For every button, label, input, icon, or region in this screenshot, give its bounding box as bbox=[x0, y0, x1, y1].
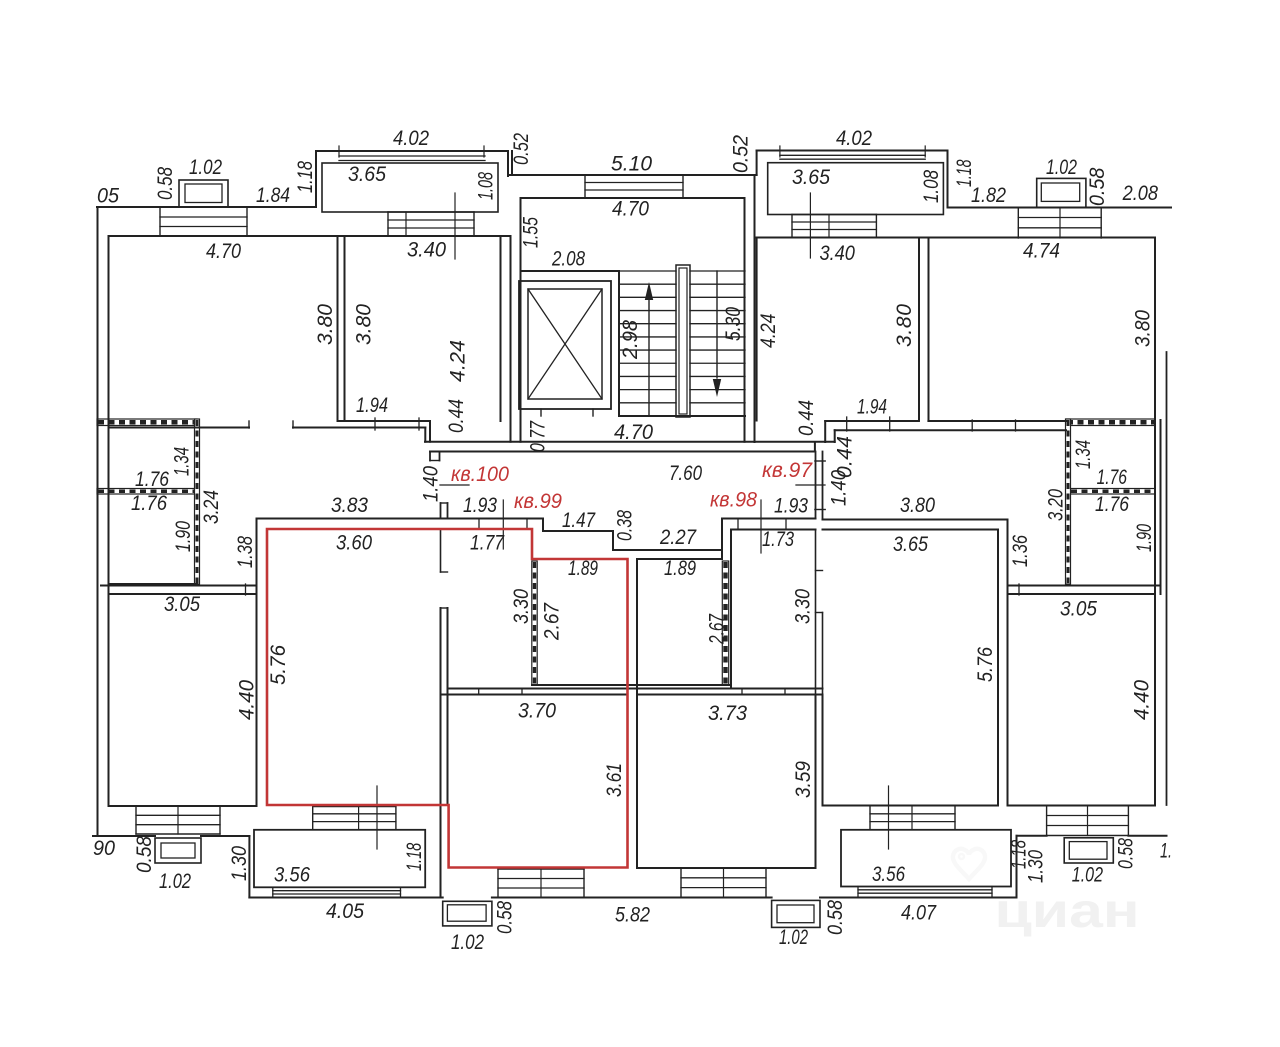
svg-text:1.02: 1.02 bbox=[1046, 156, 1077, 179]
svg-text:1.02: 1.02 bbox=[779, 926, 808, 949]
svg-text:0.38: 0.38 bbox=[614, 510, 637, 541]
svg-text:3.83: 3.83 bbox=[331, 494, 368, 517]
svg-text:0.58: 0.58 bbox=[1086, 167, 1109, 206]
svg-text:1.34: 1.34 bbox=[1072, 440, 1095, 469]
svg-text:1.55: 1.55 bbox=[520, 217, 543, 248]
svg-text:1.76: 1.76 bbox=[1097, 466, 1128, 489]
svg-text:1.76: 1.76 bbox=[131, 492, 167, 515]
svg-text:4.70: 4.70 bbox=[614, 421, 653, 444]
svg-text:3.73: 3.73 bbox=[708, 702, 747, 725]
svg-text:1.94: 1.94 bbox=[857, 396, 887, 419]
svg-text:1.77: 1.77 bbox=[470, 532, 505, 555]
svg-text:5.76: 5.76 bbox=[267, 645, 290, 685]
svg-text:4.70: 4.70 bbox=[206, 240, 241, 263]
svg-text:3.65: 3.65 bbox=[792, 166, 830, 189]
svg-text:1.18: 1.18 bbox=[294, 161, 317, 193]
svg-text:3.61: 3.61 bbox=[603, 763, 626, 797]
svg-text:4.40: 4.40 bbox=[1131, 680, 1154, 720]
svg-text:7.60: 7.60 bbox=[669, 462, 702, 485]
svg-text:0.58: 0.58 bbox=[824, 900, 847, 935]
svg-text:1.40: 1.40 bbox=[828, 470, 851, 506]
svg-text:4.02: 4.02 bbox=[836, 127, 872, 150]
svg-text:0.58: 0.58 bbox=[154, 167, 177, 200]
svg-text:3.65: 3.65 bbox=[893, 533, 928, 556]
svg-text:1.38: 1.38 bbox=[234, 536, 257, 568]
svg-text:4.74: 4.74 bbox=[1023, 240, 1060, 263]
svg-text:1.84: 1.84 bbox=[256, 184, 290, 207]
svg-text:0.77: 0.77 bbox=[527, 420, 550, 452]
svg-text:3.30: 3.30 bbox=[510, 589, 533, 624]
svg-text:0.44: 0.44 bbox=[795, 400, 818, 436]
svg-text:4.07: 4.07 bbox=[901, 902, 937, 925]
svg-text:5.10: 5.10 bbox=[611, 153, 652, 176]
svg-text:1.02: 1.02 bbox=[189, 156, 222, 179]
svg-text:3.70: 3.70 bbox=[518, 700, 556, 723]
svg-text:1.30: 1.30 bbox=[228, 846, 251, 881]
svg-text:5.82: 5.82 bbox=[615, 903, 650, 926]
svg-text:4.24: 4.24 bbox=[757, 314, 780, 348]
svg-text:1.90: 1.90 bbox=[1133, 524, 1156, 552]
svg-text:1.: 1. bbox=[1160, 840, 1172, 863]
svg-text:кв.99: кв.99 bbox=[514, 490, 562, 513]
svg-text:1.40: 1.40 bbox=[420, 466, 443, 502]
svg-text:2.67: 2.67 bbox=[541, 602, 564, 641]
svg-text:0.52: 0.52 bbox=[730, 135, 753, 173]
svg-text:4.24: 4.24 bbox=[447, 340, 470, 382]
svg-text:1.02: 1.02 bbox=[1072, 864, 1103, 887]
svg-text:1.36: 1.36 bbox=[1009, 535, 1032, 567]
svg-text:1.93: 1.93 bbox=[463, 494, 497, 517]
svg-text:2.67: 2.67 bbox=[706, 613, 729, 645]
svg-text:1.18: 1.18 bbox=[403, 843, 426, 872]
svg-text:0.44: 0.44 bbox=[445, 399, 468, 433]
svg-text:3.05: 3.05 bbox=[1060, 597, 1097, 620]
svg-text:3.60: 3.60 bbox=[336, 532, 372, 555]
svg-text:1.90: 1.90 bbox=[172, 521, 195, 552]
svg-text:кв.100: кв.100 bbox=[451, 463, 509, 486]
svg-text:3.20: 3.20 bbox=[1045, 489, 1068, 521]
svg-text:2.08: 2.08 bbox=[551, 248, 585, 271]
svg-text:3.80: 3.80 bbox=[353, 304, 376, 345]
svg-text:3.30: 3.30 bbox=[792, 589, 815, 624]
svg-text:1.34: 1.34 bbox=[171, 447, 194, 476]
svg-text:3.24: 3.24 bbox=[200, 490, 223, 524]
svg-text:кв.97: кв.97 bbox=[762, 459, 813, 482]
svg-text:4.70: 4.70 bbox=[612, 198, 649, 221]
svg-text:4.40: 4.40 bbox=[236, 680, 259, 720]
svg-text:2.08: 2.08 bbox=[1122, 182, 1158, 205]
svg-text:1.08: 1.08 bbox=[920, 170, 943, 203]
svg-text:3.80: 3.80 bbox=[314, 304, 337, 345]
svg-text:4.02: 4.02 bbox=[393, 127, 429, 150]
svg-text:1.02: 1.02 bbox=[159, 870, 191, 893]
svg-text:0.52: 0.52 bbox=[510, 133, 533, 165]
svg-text:05: 05 bbox=[97, 185, 119, 208]
svg-text:1.76: 1.76 bbox=[135, 468, 169, 491]
svg-text:4.05: 4.05 bbox=[326, 900, 364, 923]
svg-text:3.59: 3.59 bbox=[792, 761, 815, 798]
svg-text:3.80: 3.80 bbox=[893, 304, 916, 347]
svg-text:3.56: 3.56 bbox=[872, 863, 905, 886]
svg-text:кв.98: кв.98 bbox=[710, 489, 757, 512]
svg-text:3.05: 3.05 bbox=[164, 593, 200, 616]
svg-text:5.76: 5.76 bbox=[974, 647, 997, 682]
svg-text:3.80: 3.80 bbox=[1131, 310, 1154, 347]
svg-text:1.94: 1.94 bbox=[356, 394, 388, 417]
svg-text:3.65: 3.65 bbox=[348, 163, 386, 186]
svg-text:1.89: 1.89 bbox=[568, 557, 598, 580]
svg-text:1.30: 1.30 bbox=[1025, 850, 1048, 883]
svg-text:3.80: 3.80 bbox=[900, 494, 935, 517]
svg-text:3.40: 3.40 bbox=[407, 239, 446, 262]
svg-text:1.73: 1.73 bbox=[762, 528, 794, 551]
svg-text:0.58: 0.58 bbox=[1114, 838, 1137, 869]
svg-text:1.76: 1.76 bbox=[1095, 493, 1129, 516]
svg-text:1.82: 1.82 bbox=[971, 184, 1006, 207]
svg-text:1.89: 1.89 bbox=[664, 557, 696, 580]
svg-text:5.30: 5.30 bbox=[722, 307, 745, 341]
svg-text:1.93: 1.93 bbox=[774, 495, 808, 518]
svg-text:2.98: 2.98 bbox=[619, 320, 642, 360]
svg-text:3.56: 3.56 bbox=[274, 864, 310, 887]
svg-text:0.58: 0.58 bbox=[493, 901, 516, 934]
svg-text:1.08: 1.08 bbox=[475, 172, 498, 200]
svg-text:1.02: 1.02 bbox=[451, 931, 484, 954]
svg-text:3.40: 3.40 bbox=[819, 242, 855, 265]
svg-text:0.58: 0.58 bbox=[133, 836, 156, 873]
svg-text:1.47: 1.47 bbox=[562, 509, 596, 532]
svg-text:90: 90 bbox=[93, 837, 115, 860]
svg-text:2.27: 2.27 bbox=[659, 526, 697, 549]
